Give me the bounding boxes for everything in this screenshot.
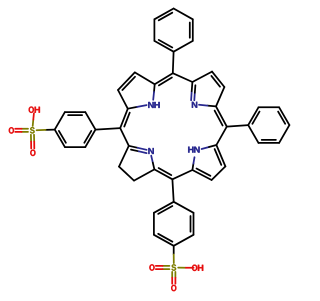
phenyl ring 3 (left) <box>55 112 96 147</box>
C-S bond left <box>37 129 55 132</box>
O atom left (bottom sulfo) <box>149 264 154 270</box>
S atom (bottom sulfo) <box>172 264 177 270</box>
O-H label (left sulfo) <box>29 107 40 113</box>
TR pyrrole ring bonds <box>173 72 225 107</box>
meso-left to phenyl3 <box>96 128 121 130</box>
O-H label (bottom sulfo) <box>192 265 203 271</box>
TL pyrrole ring bonds <box>118 72 155 108</box>
BR a1 to meso-right <box>216 127 226 145</box>
double bond pyrroline a2 = meso-bottom <box>154 168 172 179</box>
S=O left (left sulfo) <box>15 129 28 132</box>
S=O down (bottom sulfo) <box>172 272 175 284</box>
O atom left (left sulfo) <box>9 127 14 133</box>
pyrroline imine C=N <box>129 146 147 153</box>
meso-bottom to phenyl4 <box>172 179 173 202</box>
double bond TL a2 = meso-left <box>120 109 130 128</box>
S=O down (left sulfo) <box>31 135 34 149</box>
N label (top-right pyrrole) <box>192 102 197 108</box>
pyrroline ring bonds <box>119 146 154 181</box>
double bond meso-top = C-a1 (TL pyrrole) <box>155 73 173 85</box>
meso-bottom to BR pyrrole <box>172 170 192 179</box>
O atom below (bottom sulfo) <box>171 285 176 291</box>
N-H label (top-left pyrrole NH) <box>148 102 159 108</box>
O atom below (left sulfo) <box>30 150 35 156</box>
S=O left (bottom sulfo) <box>156 266 170 269</box>
double bond meso-right = TR a2 <box>215 106 227 126</box>
S-OH bond (bottom sulfo) <box>178 267 193 269</box>
phenyl ring 2 (right) <box>248 107 289 143</box>
phenyl ring 4 (bottom) <box>154 202 194 246</box>
BR pyrrole ring bonds <box>192 145 225 180</box>
phenyl ring 1 (top) <box>154 9 192 52</box>
bond: top phenyl to meso-C5 <box>172 52 175 73</box>
S-OH bond (left sulfo) <box>33 113 34 126</box>
N label (pyrroline) <box>148 148 153 154</box>
meso-left to pyrroline <box>120 128 129 146</box>
C-S bond bottom <box>173 246 175 263</box>
S atom (left sulfo) <box>30 127 35 133</box>
N-H label (bottom-right pyrrole HN) <box>188 147 199 153</box>
meso-right to phenyl2 <box>227 125 248 127</box>
